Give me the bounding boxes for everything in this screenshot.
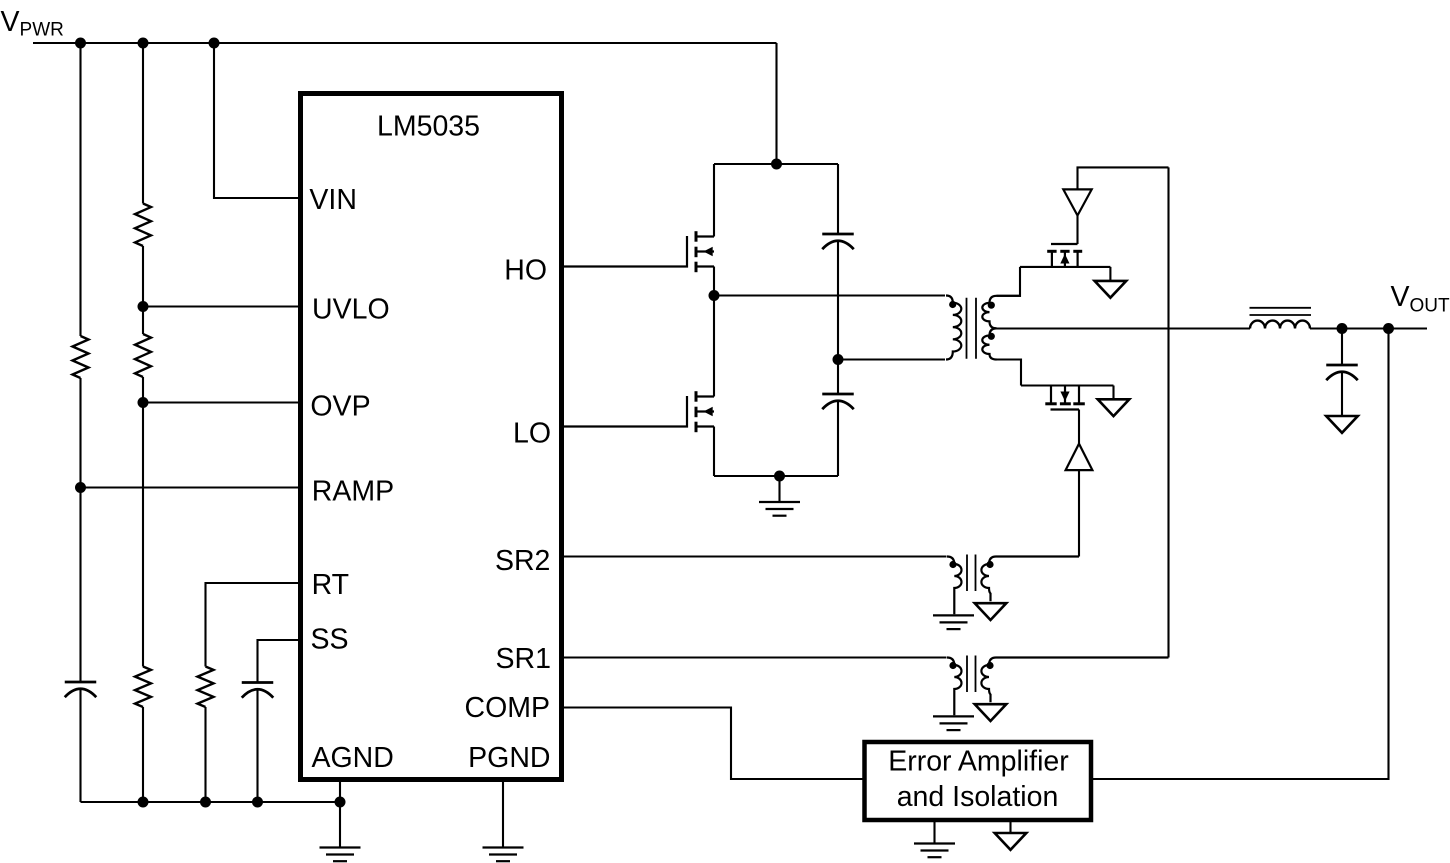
transformer T1 secondary bottom winding	[982, 328, 996, 359]
capacitor C2	[242, 681, 274, 684]
wire output cap lower lead	[1341, 372, 1343, 416]
wire cap leg lower	[837, 401, 839, 476]
wire col2 b	[142, 377, 144, 667]
svg-text:VIN: VIN	[309, 184, 357, 216]
node T2 primary phase dot	[949, 561, 956, 568]
transformer T1 secondary top winding	[982, 296, 1021, 329]
svg-text:SS: SS	[311, 624, 349, 656]
junction UVLO node	[138, 301, 149, 312]
svg-text:UVLO: UVLO	[312, 294, 390, 326]
node T1 secondary bottom phase dot	[988, 333, 995, 340]
node T3 primary phase dot	[949, 662, 956, 669]
node output return arrow (C5)	[1326, 416, 1358, 433]
node output return arrow (T3)	[975, 704, 1007, 721]
node output return arrow (T2)	[975, 603, 1007, 620]
wire col2 top	[142, 43, 144, 204]
svg-text:OVP: OVP	[310, 391, 370, 423]
junction cap mid node	[833, 354, 844, 365]
svg-text:Error Amplifier: Error Amplifier	[888, 746, 1069, 778]
wire COMP	[564, 708, 865, 780]
wire RAMP	[81, 486, 304, 488]
wire Q3 gate lead	[1076, 216, 1078, 245]
transformer T1 core	[967, 298, 977, 359]
wire T1 sec bottom to Q4	[997, 360, 1022, 386]
capacitor C3	[822, 233, 854, 236]
wire error amp to VOUT	[1091, 329, 1389, 780]
wire cap leg mid	[837, 241, 839, 394]
junction AGND-rail	[335, 797, 346, 808]
wire error amp return lead	[1009, 820, 1011, 833]
resistor R1	[73, 336, 89, 378]
junction VPWR-col2	[138, 38, 149, 49]
wire bridge top rail	[714, 163, 838, 165]
junction bridge bottom	[774, 471, 785, 482]
wire Q1 source to mid node	[713, 267, 715, 296]
transformer T1 primary winding	[946, 296, 961, 360]
resistor R5	[198, 667, 214, 708]
node T2 secondary phase dot	[986, 561, 993, 568]
wire Q1 drain	[713, 164, 715, 237]
transformer T2 core	[967, 555, 976, 592]
op-amp U1 LM5035 box	[301, 94, 562, 780]
svg-text:LM5035: LM5035	[377, 111, 480, 143]
wire OVP	[143, 401, 303, 403]
ground error amplifier	[914, 842, 955, 844]
svg-text:HO: HO	[504, 255, 547, 287]
wire SR2	[564, 555, 947, 557]
svg-text:LO: LO	[513, 418, 551, 450]
junction RT-bottom	[200, 797, 211, 808]
wire RT lower	[204, 707, 206, 802]
svg-text:SR2: SR2	[495, 545, 550, 577]
svg-text:and Isolation: and Isolation	[897, 781, 1059, 813]
wire VOUT center tap	[996, 327, 1251, 329]
svg-text:RAMP: RAMP	[312, 476, 394, 508]
transistor Q1 (high-side NMOS)	[564, 236, 687, 267]
ground T3	[933, 715, 974, 717]
resistor R3	[135, 334, 151, 377]
capacitor C1	[65, 681, 97, 684]
node T1 primary phase dot	[949, 301, 956, 308]
wire bridge bottom rail	[714, 475, 838, 477]
transistor Q3 rail	[1020, 266, 1110, 268]
svg-text:VOUT: VOUT	[1391, 281, 1450, 316]
capacitor C5	[1326, 364, 1358, 367]
node Q4 gate drive arrow	[1066, 444, 1093, 470]
wire SR1 riser	[1167, 167, 1169, 657]
ground AGND	[320, 846, 361, 848]
transistor Q2 (low-side NMOS)	[564, 396, 687, 427]
transistor Q3 (SR high NMOS)	[1047, 250, 1056, 253]
junction VOUT-cap	[1337, 323, 1348, 334]
junction col2-bottom	[138, 797, 149, 808]
wire error amp gnd lead	[933, 820, 935, 844]
capacitor C4	[822, 393, 854, 396]
wire Q2 drain	[713, 296, 715, 397]
node Q3 gate drive arrow	[1063, 189, 1091, 215]
junction SS-bottom	[252, 797, 263, 808]
transistor Q4 (SR low NMOS)	[1045, 402, 1056, 405]
wire Q3 source down	[1109, 267, 1111, 281]
wire analog ground rail	[81, 801, 341, 803]
wire cap leg upper	[837, 164, 839, 234]
junction bridge top	[771, 159, 782, 170]
wire Q2 source	[713, 427, 715, 477]
resistor R4	[135, 667, 151, 708]
inductor L1	[1250, 321, 1310, 329]
junction VPWR-col3	[209, 38, 220, 49]
junction VPWR-col1	[75, 38, 86, 49]
wire col2 a	[142, 246, 144, 334]
wire col1 mid	[79, 378, 81, 682]
svg-text:PGND: PGND	[468, 742, 550, 774]
wire AGND drop	[339, 780, 341, 848]
svg-text:VPWR: VPWR	[1, 6, 64, 41]
transformer T2 primary	[947, 557, 962, 615]
svg-text:AGND: AGND	[312, 742, 394, 774]
wire bridge gnd lead	[778, 476, 780, 502]
wire col2 c	[142, 707, 144, 802]
transformer T3 core	[967, 656, 976, 693]
wire VPWR drop to bridge	[775, 43, 777, 164]
ground bridge	[759, 501, 800, 503]
wire mid node to T1 primary	[714, 294, 945, 296]
junction VOUT-feedback	[1383, 323, 1394, 334]
wire RT	[206, 583, 304, 667]
junction RAMP node	[75, 482, 86, 493]
transistor Q4 rail	[1021, 384, 1114, 386]
node VPWR rail wire	[33, 42, 777, 44]
wire Q4 rail down	[1112, 386, 1114, 400]
node output return arrow (Q3)	[1095, 281, 1127, 298]
transformer T3 primary	[947, 658, 962, 716]
wire VIN drop	[214, 43, 303, 198]
svg-text:RT: RT	[312, 569, 349, 601]
node output return arrow (error amp)	[995, 833, 1027, 850]
wire SS lower	[256, 690, 258, 803]
transformer T3 secondary	[981, 658, 1168, 703]
wire Q3 gate top	[1078, 167, 1169, 189]
ground T2	[933, 614, 974, 616]
wire T1 sec top to Q3	[997, 267, 1021, 296]
ground PGND	[483, 846, 524, 848]
resistor R2	[135, 204, 151, 247]
wire PGND drop	[502, 780, 504, 848]
node output return arrow (Q4)	[1098, 399, 1130, 416]
junction OVP node	[138, 397, 149, 408]
svg-text:SR1: SR1	[496, 643, 551, 675]
junction half-bridge mid node	[709, 290, 720, 301]
node T3 secondary phase dot	[986, 662, 993, 669]
svg-text:COMP: COMP	[465, 692, 551, 724]
node T1 secondary top phase dot	[988, 302, 995, 309]
wire output cap lead	[1341, 329, 1343, 366]
error amplifier box	[865, 742, 1092, 820]
wire col1 upper	[79, 43, 81, 336]
wire Q4 gate lead	[1078, 410, 1080, 444]
wire UVLO	[143, 305, 303, 307]
transformer T2 secondary	[981, 557, 1079, 602]
wire VOUT right	[1310, 327, 1427, 329]
wire SR1	[564, 656, 947, 658]
wire Q4 gate bottom	[1078, 470, 1080, 556]
wire col1 lower	[79, 689, 81, 802]
inductor L1 core	[1250, 308, 1312, 315]
wire SS	[258, 640, 304, 683]
wire cap node to T1 primary	[838, 358, 945, 360]
